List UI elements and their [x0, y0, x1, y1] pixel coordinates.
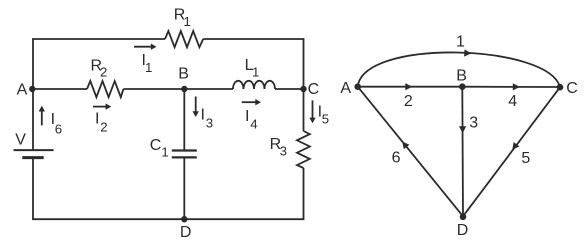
- svg-text:3: 3: [206, 116, 213, 131]
- wire capacitor to D: [183, 157, 185, 219]
- wire bottom horizontal: [32, 218, 304, 220]
- svg-text:C: C: [566, 80, 578, 97]
- node B (graph): [459, 83, 466, 90]
- wire battery to bottom: [32, 158, 34, 220]
- battery V plate long: [14, 149, 54, 151]
- wire top-left vertical: [32, 39, 34, 150]
- edge 4 B to C: [462, 86, 560, 88]
- svg-text:B: B: [178, 66, 189, 83]
- wire B down to capacitor: [183, 89, 185, 151]
- wire top horizontal right of R1: [203, 38, 304, 40]
- svg-text:5: 5: [521, 150, 530, 167]
- arrow edge 1: [464, 49, 471, 56]
- svg-text:D: D: [180, 224, 192, 241]
- node A (graph): [354, 83, 361, 90]
- edge 3 B to D: [461, 87, 464, 217]
- svg-text:B: B: [456, 68, 467, 85]
- svg-text:2: 2: [404, 93, 413, 110]
- svg-text:I: I: [95, 111, 99, 128]
- svg-text:4: 4: [250, 116, 257, 131]
- current arrow I2: [93, 103, 111, 109]
- svg-text:C: C: [308, 81, 320, 98]
- resistor R1: [165, 31, 203, 47]
- current arrow I5: [309, 100, 315, 123]
- svg-text:I: I: [245, 108, 249, 125]
- current arrow I1: [134, 44, 157, 50]
- svg-text:1: 1: [161, 144, 168, 159]
- svg-text:6: 6: [392, 149, 401, 166]
- node C (graph): [557, 84, 564, 91]
- svg-text:5: 5: [322, 112, 329, 127]
- arrow edge 5 (points toward D): [512, 142, 519, 150]
- arrow edge 4: [513, 83, 520, 90]
- capacitor C1 plate top: [172, 149, 197, 151]
- wire right vertical top (to node C): [303, 39, 305, 131]
- svg-text:3: 3: [280, 144, 287, 159]
- arrow edge 6 (points toward A): [402, 142, 409, 150]
- wire middle A to R2: [32, 88, 87, 90]
- svg-text:6: 6: [55, 122, 62, 137]
- svg-text:A: A: [17, 81, 28, 98]
- wire top horizontal left of R1: [32, 38, 165, 40]
- edge 1 arc A to C: [358, 52, 560, 87]
- svg-text:I: I: [201, 106, 205, 123]
- svg-text:2: 2: [100, 64, 107, 79]
- svg-text:V: V: [15, 131, 26, 148]
- wire middle R2 to B to L1: [123, 88, 233, 90]
- svg-text:1: 1: [252, 65, 259, 80]
- node C (circuit): [300, 86, 306, 92]
- node D (circuit): [181, 216, 187, 222]
- wire R3 to bottom: [303, 168, 305, 219]
- arrow edge 2: [405, 83, 412, 90]
- battery V plate short: [22, 156, 43, 159]
- edge 5 C to D: [463, 87, 560, 216]
- svg-text:D: D: [457, 222, 469, 239]
- wire middle L1 to C: [275, 88, 304, 90]
- svg-text:C: C: [150, 137, 162, 154]
- arrow edge 3: [459, 126, 466, 133]
- node D (graph): [460, 214, 467, 221]
- svg-text:1: 1: [184, 14, 191, 29]
- current arrow I6: [39, 106, 45, 126]
- svg-text:3: 3: [469, 114, 478, 131]
- capacitor C1 plate bottom: [172, 156, 197, 158]
- svg-text:A: A: [340, 80, 351, 97]
- svg-text:2: 2: [100, 119, 107, 134]
- svg-text:1: 1: [145, 60, 152, 75]
- node A (circuit): [29, 86, 35, 92]
- svg-text:4: 4: [508, 93, 517, 110]
- node B (circuit): [181, 86, 187, 92]
- edge 6 A to D: [358, 87, 463, 217]
- resistor R2: [87, 81, 123, 97]
- resistor R3: [297, 131, 310, 168]
- current arrow I4: [242, 99, 261, 105]
- current arrow I3: [193, 97, 199, 118]
- inductor L1: [233, 81, 275, 89]
- edge 2 A to B: [358, 86, 463, 88]
- svg-text:1: 1: [456, 34, 465, 51]
